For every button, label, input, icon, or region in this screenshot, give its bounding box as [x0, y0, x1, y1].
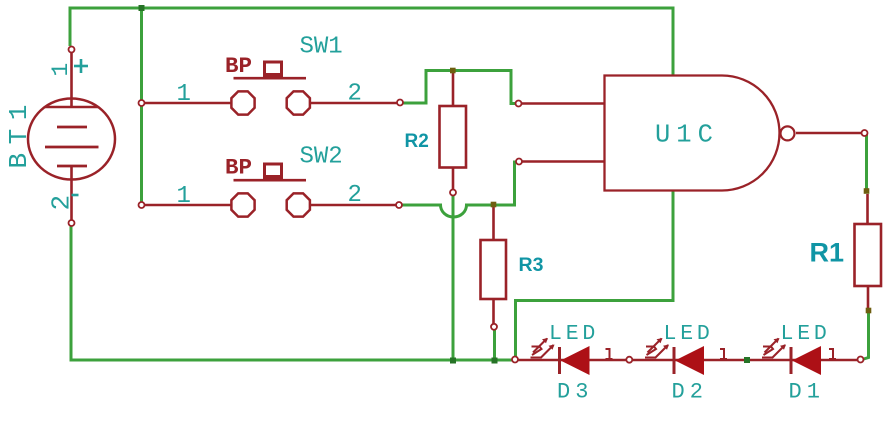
pin SW2 out [396, 202, 402, 208]
switch SW2 [144, 164, 397, 217]
wire SW2 output with hop to gate input 2 [399, 162, 516, 217]
pin R3 top [491, 202, 497, 208]
svg-text:D2: D2 [672, 380, 708, 405]
label battery + [74, 59, 88, 73]
junction ground rail at R2 branch [450, 358, 456, 364]
wire R3 bottom to ground rail [493, 329, 496, 360]
svg-text:D3: D3 [557, 380, 593, 405]
svg-text:SW1: SW1 [300, 33, 343, 60]
pin SW1-1 node [139, 100, 145, 106]
wire LED chain [517, 359, 858, 362]
wire gate output stub [796, 132, 862, 134]
gate bubble [781, 126, 795, 140]
pin battery - [69, 220, 75, 226]
pin battery + [69, 47, 75, 53]
svg-text:BP: BP [225, 53, 252, 79]
resistor R2 [440, 71, 467, 191]
wire top rail from battery + to gate top [70, 8, 673, 76]
label battery - [72, 194, 79, 197]
svg-text:BP: BP [225, 155, 252, 181]
pin R1 top [864, 188, 870, 194]
wire R1 bottom to LED D1 [862, 311, 869, 360]
svg-text:D1: D1 [789, 380, 825, 405]
switch SW1 [144, 62, 397, 115]
resistor R3 [481, 207, 507, 324]
pin SW2-1 node [139, 202, 145, 208]
svg-text:U1C: U1C [655, 121, 719, 150]
wire switch feed vertical [140, 8, 143, 205]
pin between D3 and D2 [626, 357, 632, 363]
led D1 [762, 338, 836, 375]
led D2 [645, 338, 727, 375]
pin gate input 1 [516, 101, 522, 107]
wire SW1 output to gate input 1 [400, 71, 515, 104]
svg-text:1: 1 [177, 183, 191, 210]
pin R2 top [450, 68, 456, 74]
pin R1 bottom [866, 308, 872, 314]
svg-text:BT1: BT1 [4, 96, 34, 168]
pin LED chain right [858, 357, 864, 363]
pin LED chain left [512, 357, 518, 363]
wire gate input 2 stub [522, 160, 605, 162]
wire R2 bottom to ground rail [452, 193, 455, 360]
wire gate input 1 stub [522, 102, 605, 104]
junction between D2 and D1 [744, 357, 750, 363]
battery BT1 [28, 51, 115, 221]
svg-text:R1: R1 [810, 238, 845, 268]
pin R3 bottom [491, 324, 497, 330]
wire ground rail from battery - [71, 226, 513, 360]
svg-text:LED: LED [549, 322, 599, 346]
svg-text:R2: R2 [405, 131, 429, 152]
svg-text:R3: R3 [519, 254, 544, 276]
nand gate U1C [605, 76, 780, 191]
pin gate output [862, 130, 868, 136]
resistor R1 [855, 194, 882, 308]
led D3 [531, 338, 613, 375]
wire gate output to R1 top [865, 134, 868, 191]
svg-text:1: 1 [48, 63, 74, 77]
svg-text:2: 2 [348, 81, 362, 108]
svg-text:1: 1 [177, 81, 191, 108]
svg-text:2: 2 [348, 182, 362, 209]
wire gate bottom to LED chain [516, 191, 674, 359]
pin gate input 2 [516, 159, 522, 165]
svg-text:LED: LED [664, 322, 714, 346]
junction ground rail at R3 branch [492, 358, 498, 364]
pin R2 bottom [450, 190, 456, 196]
svg-text:LED: LED [781, 322, 831, 346]
pin SW1 out [397, 100, 403, 106]
svg-text:SW2: SW2 [300, 143, 343, 170]
junction [139, 5, 145, 11]
svg-text:2: 2 [47, 195, 77, 211]
